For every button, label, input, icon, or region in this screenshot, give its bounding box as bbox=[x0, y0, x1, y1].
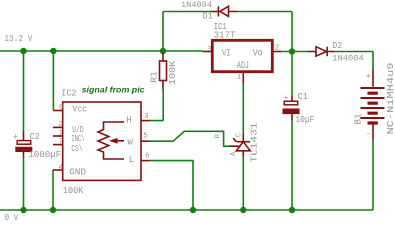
pin GND stub bbox=[53, 169, 63, 171]
svg-text:+: + bbox=[284, 94, 289, 103]
regulator IC1 317T box bbox=[212, 40, 272, 71]
svg-text:1N4004: 1N4004 bbox=[181, 1, 212, 10]
wire C2 top bbox=[23, 51, 25, 131]
resistor R1 bbox=[160, 53, 167, 89]
wire bottom rail 0V bbox=[0, 209, 373, 211]
pin L stub bbox=[141, 160, 150, 162]
svg-text:+: + bbox=[13, 133, 18, 142]
junction bottom GND bbox=[50, 207, 56, 213]
svg-text:1N4004: 1N4004 bbox=[332, 54, 364, 63]
svg-text:4: 4 bbox=[59, 164, 64, 172]
shunt regulator TL431 bbox=[229, 133, 250, 157]
svg-text:INC\: INC\ bbox=[71, 134, 84, 144]
wire Vcc column bbox=[52, 51, 54, 111]
junction bottom L bbox=[190, 207, 196, 213]
svg-text:C: C bbox=[235, 133, 243, 137]
svg-text:3: 3 bbox=[207, 46, 212, 54]
diode D1 bbox=[211, 6, 237, 16]
svg-text:Vcc: Vcc bbox=[73, 105, 88, 115]
potentiometer inside IC2 bbox=[98, 122, 124, 159]
svg-text:7: 7 bbox=[59, 138, 64, 146]
wire W pin to TL431 ref bbox=[150, 131, 229, 146]
pin U/D stub bbox=[53, 126, 63, 128]
pin VI stub bbox=[203, 51, 212, 53]
junction output node bbox=[289, 48, 295, 54]
wire bypass up leg bbox=[162, 12, 164, 52]
wire R1 to H pin bbox=[150, 89, 163, 121]
junction top rail Vcc bbox=[50, 48, 56, 54]
pin Vcc stub bbox=[53, 110, 62, 112]
svg-text:R: R bbox=[215, 133, 223, 138]
svg-text:-: - bbox=[366, 130, 371, 140]
svg-text:317T: 317T bbox=[214, 29, 236, 40]
svg-text:100K: 100K bbox=[168, 60, 178, 85]
wire battery bottom bbox=[372, 139, 374, 210]
svg-text:VI: VI bbox=[222, 48, 231, 60]
svg-text:B1: B1 bbox=[353, 114, 363, 125]
wire ADJ down bbox=[242, 83, 244, 133]
wire bypass top left bbox=[163, 11, 211, 13]
svg-text:R1: R1 bbox=[150, 71, 160, 83]
junction top rail C2 bbox=[20, 48, 26, 54]
wire L pin to ground bbox=[150, 161, 193, 210]
svg-text:+: + bbox=[366, 72, 371, 82]
pin VO stub bbox=[272, 51, 281, 53]
wire bypass down leg bbox=[291, 12, 293, 52]
svg-text:1000µF: 1000µF bbox=[28, 149, 61, 160]
pin ADJ stub bbox=[242, 72, 244, 83]
wire bypass top right bbox=[237, 11, 292, 13]
diode D2 bbox=[308, 47, 335, 57]
pin CS stub bbox=[53, 144, 63, 146]
junction bottom C1 bbox=[289, 207, 295, 213]
svg-text:A: A bbox=[230, 151, 238, 156]
junction bottom TL431 bbox=[240, 207, 246, 213]
svg-text:signal from pic: signal from pic bbox=[82, 85, 145, 95]
pin INC stub bbox=[53, 135, 63, 137]
svg-text:0 V: 0 V bbox=[5, 212, 19, 223]
svg-text:CS\: CS\ bbox=[71, 144, 82, 154]
svg-text:C2: C2 bbox=[30, 131, 40, 142]
wire battery top bbox=[372, 52, 374, 70]
svg-text:IC2: IC2 bbox=[61, 88, 76, 99]
wire TL431 anode down bbox=[242, 157, 244, 210]
svg-text:100K: 100K bbox=[63, 185, 84, 196]
svg-text:NC-NiMH4u9: NC-NiMH4u9 bbox=[386, 63, 395, 135]
svg-text:13.2 V: 13.2 V bbox=[4, 33, 32, 44]
wire C1 top bbox=[291, 52, 293, 97]
pin W stub bbox=[141, 140, 150, 142]
battery B1 bbox=[361, 69, 385, 139]
wire C1 bottom bbox=[291, 120, 293, 210]
svg-text:GND: GND bbox=[69, 167, 86, 177]
junction top rail R1 bbox=[160, 48, 166, 54]
pin H stub bbox=[141, 120, 150, 122]
capacitor C2 bbox=[15, 131, 32, 157]
svg-text:2: 2 bbox=[275, 45, 280, 53]
wire D2 to battery bbox=[335, 51, 373, 53]
svg-text:W: W bbox=[128, 137, 134, 147]
ic IC2 digital pot box bbox=[63, 102, 141, 180]
wire VO to junction bbox=[281, 51, 309, 53]
svg-text:Vo: Vo bbox=[253, 48, 263, 60]
svg-text:H: H bbox=[126, 115, 131, 125]
svg-text:D2: D2 bbox=[332, 41, 342, 51]
svg-text:8: 8 bbox=[59, 104, 64, 112]
svg-text:1: 1 bbox=[59, 130, 64, 138]
svg-text:1: 1 bbox=[237, 74, 242, 82]
svg-text:TL1431: TL1431 bbox=[249, 123, 259, 163]
wire top rail 13.2V bbox=[0, 50, 203, 52]
capacitor C1 bbox=[283, 96, 300, 120]
svg-text:L: L bbox=[129, 155, 134, 165]
svg-text:ADJ: ADJ bbox=[237, 60, 249, 72]
wire GND column bbox=[52, 170, 54, 210]
svg-text:3: 3 bbox=[144, 113, 149, 121]
svg-text:C1: C1 bbox=[298, 91, 309, 102]
svg-text:5: 5 bbox=[143, 132, 148, 140]
svg-text:2: 2 bbox=[59, 121, 64, 129]
wire C2 bottom bbox=[23, 156, 25, 210]
svg-text:D1: D1 bbox=[203, 11, 213, 21]
junction bottom C2 bbox=[20, 207, 26, 213]
svg-text:10µF: 10µF bbox=[295, 114, 314, 125]
svg-text:6: 6 bbox=[145, 153, 150, 161]
